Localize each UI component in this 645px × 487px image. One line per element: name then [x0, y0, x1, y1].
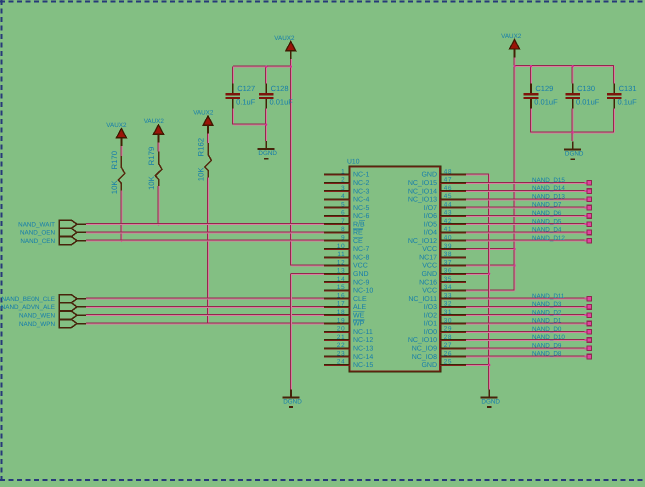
svg-text:32: 32 — [444, 301, 452, 308]
svg-text:NAND_D2: NAND_D2 — [532, 309, 562, 316]
off-sheet terminal NAND_D4 — [585, 231, 588, 233]
svg-text:5: 5 — [341, 201, 345, 208]
svg-text:WP: WP — [353, 321, 365, 328]
svg-text:NC-5: NC-5 — [353, 205, 369, 212]
svg-text:VAUX2: VAUX2 — [106, 122, 127, 129]
IC U10 body — [349, 166, 441, 372]
power VAUX2 above C127/C128 — [274, 35, 295, 59]
wire NAND_D10 from U10 pin 28 — [466, 339, 585, 341]
svg-text:39: 39 — [444, 243, 452, 250]
svg-text:VCC: VCC — [422, 288, 437, 295]
U10 pin 12 stub — [324, 264, 350, 266]
resistor R162 10K — [196, 138, 211, 181]
power VAUX2 above R179 — [144, 118, 165, 142]
U10 pin 17 stub — [324, 305, 350, 307]
svg-text:NC-12: NC-12 — [353, 337, 373, 344]
svg-text:NC16: NC16 — [419, 279, 437, 286]
svg-text:36: 36 — [444, 268, 452, 275]
wire NAND_D1 from U10 pin 30 — [466, 322, 585, 324]
junction pin39/VAUX2 rail — [513, 248, 515, 250]
port NAND_ADVN_ALE — [1, 303, 86, 311]
svg-text:VAUX2: VAUX2 — [501, 33, 522, 40]
svg-text:NAND_BE0N_CLE: NAND_BE0N_CLE — [1, 296, 55, 303]
U10 pin 29 stub — [440, 330, 466, 332]
svg-text:0.01uF: 0.01uF — [534, 97, 558, 106]
off-sheet terminal NAND_D6 — [585, 215, 588, 217]
junction top rail / VAUX2 wire — [290, 66, 292, 68]
U10 pin 24 stub — [324, 363, 350, 365]
svg-text:NAND_D15: NAND_D15 — [532, 177, 565, 184]
wire NAND_D7 from U10 pin 44 — [466, 206, 585, 208]
junction C129 / top rail — [530, 65, 532, 67]
svg-text:37: 37 — [444, 259, 452, 266]
svg-text:NAND_D10: NAND_D10 — [532, 334, 565, 341]
wire C130 bottom to ground — [571, 109, 573, 141]
U10 pin 42 stub — [440, 223, 466, 225]
U10 pin 11 stub — [324, 256, 350, 258]
svg-text:I/O7: I/O7 — [424, 204, 437, 212]
U10 pin 31 stub — [440, 314, 466, 316]
U10 pin 45 stub — [440, 198, 466, 200]
svg-text:30: 30 — [444, 317, 452, 324]
svg-text:NAND_D4: NAND_D4 — [532, 227, 562, 234]
svg-text:VCC: VCC — [422, 263, 437, 270]
wire C129 bottom stub — [530, 109, 532, 133]
svg-text:NAND_CEN: NAND_CEN — [20, 238, 55, 245]
wire R179 to NAND_WAIT — [157, 186, 159, 224]
power VAUX2 right group — [501, 33, 522, 57]
wire NAND_CEN to U10 pin 9 — [86, 239, 324, 241]
svg-text:NC-15: NC-15 — [353, 362, 373, 369]
svg-text:38: 38 — [444, 251, 452, 258]
junction C130 / bottom rail — [572, 131, 574, 133]
svg-text:29: 29 — [444, 326, 452, 333]
U10 pin 34 stub — [440, 289, 466, 291]
U10 pin 21 stub — [324, 339, 350, 341]
off-sheet terminal NAND_D3 — [585, 306, 588, 308]
svg-text:NAND_D3: NAND_D3 — [532, 301, 562, 308]
wire NAND_ADVN_ALE to U10 pin 17 — [86, 305, 324, 307]
wire NAND_WEN to U10 pin 18 — [86, 314, 324, 316]
wire NAND_BE0N_CLE to U10 pin 16 — [86, 297, 324, 299]
svg-text:CE: CE — [353, 238, 363, 245]
svg-text:47: 47 — [444, 177, 452, 184]
wire U10 pin 13 GND to bottom ground — [291, 272, 324, 274]
svg-text:22: 22 — [337, 342, 345, 349]
svg-text:NAND_D1: NAND_D1 — [532, 318, 562, 325]
wire VAUX2 to R162 — [207, 134, 209, 143]
wire C128 top stub — [265, 67, 267, 84]
capacitor C128 0.01uF — [259, 84, 293, 109]
wire NAND_D14 from U10 pin 46 — [466, 190, 585, 192]
junction pin25/ground rail — [488, 364, 490, 366]
U10 pin 27 stub — [440, 347, 466, 349]
svg-text:NAND_WPN: NAND_WPN — [19, 321, 55, 328]
wire NAND_D11 from U10 pin 33 — [466, 297, 585, 299]
svg-text:NC-14: NC-14 — [353, 354, 373, 361]
wire U10 pin 48 GND to ground rail — [466, 173, 489, 175]
wire NAND_D15 from U10 pin 47 — [466, 181, 585, 183]
svg-text:NC-1: NC-1 — [353, 172, 369, 179]
wire VAUX2 to R179 — [157, 143, 159, 152]
wire NAND_D12 from U10 pin 40 — [466, 239, 585, 241]
junction C130 / top rail — [572, 65, 574, 67]
svg-text:C129: C129 — [535, 84, 553, 93]
off-sheet terminal NAND_D5 — [585, 223, 588, 225]
svg-text:8: 8 — [341, 226, 345, 233]
svg-text:25: 25 — [444, 359, 452, 366]
svg-text:GND: GND — [353, 271, 369, 278]
svg-text:3: 3 — [341, 185, 345, 192]
U10 pin 47 stub — [440, 181, 466, 183]
svg-text:10K: 10K — [147, 175, 156, 190]
svg-text:GND: GND — [421, 271, 437, 278]
ground DGND bottom left — [283, 389, 303, 407]
wire C131 top stub — [613, 66, 615, 83]
U10 pin 1 stub — [324, 173, 350, 175]
wire NAND_D0 from U10 pin 29 — [466, 330, 585, 332]
junction pin36/ground rail — [488, 273, 490, 275]
U10 pin 41 stub — [440, 231, 466, 233]
wire VAUX2 to R170 — [120, 146, 122, 156]
svg-text:NAND_D11: NAND_D11 — [532, 293, 565, 300]
junction VAUX2 rail / top rail — [513, 65, 515, 67]
svg-text:35: 35 — [444, 276, 452, 283]
wire NAND_D9 from U10 pin 27 — [466, 347, 585, 349]
svg-text:20: 20 — [337, 326, 345, 333]
svg-text:NC-10: NC-10 — [353, 288, 373, 295]
resistor R170 10K — [110, 150, 125, 194]
wire NAND_D2 from U10 pin 31 — [466, 314, 585, 316]
wire NAND_D13 from U10 pin 45 — [466, 198, 585, 200]
svg-text:I/O4: I/O4 — [424, 229, 437, 237]
wire U10 pin 37 VCC to VAUX2 rail — [466, 264, 515, 266]
U10 pin 46 stub — [440, 190, 466, 192]
svg-text:34: 34 — [444, 284, 452, 291]
svg-text:I/O0: I/O0 — [424, 328, 437, 336]
off-sheet terminal NAND_D2 — [585, 314, 588, 316]
wire C127 bottom stub — [231, 109, 233, 125]
svg-text:NC_IO14: NC_IO14 — [408, 188, 437, 195]
off-sheet terminal NAND_D11 — [585, 298, 588, 300]
svg-text:0.01uF: 0.01uF — [576, 97, 600, 106]
svg-text:I/O6: I/O6 — [424, 212, 437, 220]
svg-text:C127: C127 — [237, 84, 255, 93]
svg-text:14: 14 — [337, 276, 345, 283]
svg-text:VAUX2: VAUX2 — [274, 35, 295, 42]
svg-text:DGND: DGND — [258, 150, 277, 157]
capacitor C127 0.1uF — [225, 84, 255, 109]
off-sheet terminal NAND_D1 — [585, 323, 588, 325]
svg-text:CLE: CLE — [353, 296, 367, 303]
svg-text:NAND_D13: NAND_D13 — [532, 193, 565, 200]
U10 pin 5 stub — [324, 206, 350, 208]
port NAND_WPN — [19, 320, 86, 328]
junction R170/NAND_CEN — [120, 240, 122, 242]
wire C130 top stub — [571, 66, 573, 83]
U10 pin 25 stub — [440, 363, 466, 365]
svg-text:40: 40 — [444, 235, 452, 242]
svg-text:NAND_D5: NAND_D5 — [532, 218, 562, 225]
ground DGND bottom right — [481, 389, 501, 407]
port NAND_BE0N_CLE — [1, 295, 86, 303]
svg-text:C130: C130 — [577, 84, 595, 93]
power VAUX2 above R162 — [193, 109, 214, 133]
svg-text:17: 17 — [337, 301, 345, 308]
off-sheet terminal NAND_D9 — [585, 347, 588, 349]
svg-text:NAND_D14: NAND_D14 — [532, 185, 565, 192]
svg-text:NC-3: NC-3 — [353, 188, 369, 195]
U10 pin 30 stub — [440, 322, 466, 324]
svg-text:C131: C131 — [619, 84, 637, 93]
U10 pin 48 stub — [440, 173, 466, 175]
wire R170 to NAND_CEN — [120, 191, 122, 241]
svg-text:NC-7: NC-7 — [353, 246, 369, 253]
svg-text:DGND: DGND — [565, 151, 584, 158]
svg-text:C128: C128 — [271, 84, 289, 93]
svg-text:41: 41 — [444, 226, 452, 233]
svg-text:VCC: VCC — [353, 263, 368, 270]
svg-text:2: 2 — [341, 177, 345, 184]
svg-text:43: 43 — [444, 210, 452, 217]
U10 pin 36 stub — [440, 272, 466, 274]
svg-text:NC-13: NC-13 — [353, 346, 373, 353]
svg-text:NC-2: NC-2 — [353, 180, 369, 187]
wire NAND_D8 from U10 pin 26 — [466, 355, 585, 357]
svg-text:GND: GND — [421, 172, 437, 179]
svg-text:46: 46 — [444, 185, 452, 192]
svg-text:33: 33 — [444, 293, 452, 300]
U10 pin 28 stub — [440, 339, 466, 341]
off-sheet terminal NAND_D13 — [585, 198, 588, 200]
off-sheet terminal NAND_D12 — [585, 240, 588, 242]
svg-text:DGND: DGND — [481, 399, 500, 406]
U10 pin 7 stub — [324, 223, 350, 225]
U10 pin 9 stub — [324, 239, 350, 241]
svg-text:I/O1: I/O1 — [424, 320, 437, 328]
junction C128 / bottom rail — [265, 124, 267, 126]
svg-text:26: 26 — [444, 350, 452, 357]
U10 pin 22 stub — [324, 347, 350, 349]
svg-text:NAND_D12: NAND_D12 — [532, 235, 565, 242]
svg-text:NC-4: NC-4 — [353, 197, 369, 204]
svg-text:9: 9 — [341, 235, 345, 242]
svg-text:7: 7 — [341, 218, 345, 225]
svg-text:12: 12 — [337, 259, 345, 266]
wire NAND_D3 from U10 pin 32 — [466, 305, 585, 307]
U10 pin 32 stub — [440, 305, 466, 307]
svg-text:10K: 10K — [110, 180, 119, 195]
wire NAND_D5 from U10 pin 42 — [466, 223, 585, 225]
U10 pin 39 stub — [440, 248, 466, 250]
svg-text:0.01uF: 0.01uF — [270, 97, 294, 106]
svg-text:I/O5: I/O5 — [424, 220, 437, 228]
svg-text:GND: GND — [421, 362, 437, 369]
U10 pin 14 stub — [324, 281, 350, 283]
off-sheet terminal NAND_D0 — [585, 331, 588, 333]
U10 pin 26 stub — [440, 355, 466, 357]
U10 pin 3 stub — [324, 190, 350, 192]
svg-text:U10: U10 — [347, 159, 360, 166]
svg-text:13: 13 — [337, 268, 345, 275]
svg-text:NC_IO13: NC_IO13 — [408, 197, 437, 204]
wire VAUX2 rail down to U10 pin 34 VCC — [513, 57, 515, 290]
svg-text:10: 10 — [337, 243, 345, 250]
ground DGND below C128 — [258, 141, 278, 159]
U10 pin 6 stub — [324, 214, 350, 216]
ground DGND below C130 — [564, 141, 584, 159]
svg-text:6: 6 — [341, 210, 345, 217]
svg-text:R162: R162 — [196, 138, 205, 157]
svg-text:NC-8: NC-8 — [353, 255, 369, 262]
svg-text:NAND_D0: NAND_D0 — [532, 326, 562, 333]
U10 pin 33 stub — [440, 297, 466, 299]
svg-text:NAND_D7: NAND_D7 — [532, 202, 562, 209]
U10 pin 18 stub — [324, 314, 350, 316]
svg-text:R170: R170 — [110, 150, 119, 169]
svg-text:0.1uF: 0.1uF — [236, 97, 256, 106]
wire C128 bottom to ground — [265, 109, 267, 141]
resistor R179 10K — [147, 147, 162, 190]
svg-text:27: 27 — [444, 342, 452, 349]
svg-text:NC17: NC17 — [419, 255, 437, 262]
power VAUX2 above R170 — [106, 122, 127, 146]
svg-text:NAND_WAIT: NAND_WAIT — [18, 222, 55, 229]
U10 pin 20 stub — [324, 330, 350, 332]
junction R179/NAND_WAIT — [157, 223, 159, 225]
svg-text:WE: WE — [353, 312, 365, 319]
svg-text:23: 23 — [337, 350, 345, 357]
U10 pin 37 stub — [440, 264, 466, 266]
port NAND_CEN — [20, 237, 86, 245]
wire NAND_D4 from U10 pin 41 — [466, 231, 585, 233]
svg-text:NC_IO9: NC_IO9 — [412, 346, 437, 353]
capacitor C129 0.01uF — [524, 84, 558, 109]
wire cap bottom rail right group — [531, 131, 614, 133]
svg-text:NAND_D8: NAND_D8 — [532, 351, 562, 358]
port NAND_WAIT — [18, 220, 86, 228]
wire C127 top stub — [231, 67, 233, 84]
wire NAND_OEN to U10 pin 8 — [86, 231, 324, 233]
wire U10 pin 25 GND to ground rail — [466, 363, 489, 365]
capacitor C131 0.1uF — [607, 84, 637, 109]
svg-text:42: 42 — [444, 218, 452, 225]
wire C129 top stub — [530, 66, 532, 83]
svg-text:48: 48 — [444, 168, 452, 175]
junction R162/NAND_WPN — [207, 322, 209, 324]
port NAND_OEN — [20, 228, 86, 236]
U10 pin 10 stub — [324, 248, 350, 250]
svg-text:NC_IO12: NC_IO12 — [408, 238, 437, 245]
capacitor C130 0.01uF — [565, 84, 599, 109]
off-sheet terminal NAND_D10 — [585, 339, 588, 341]
svg-text:16: 16 — [337, 293, 345, 300]
U10 pin 4 stub — [324, 198, 350, 200]
svg-text:VAUX2: VAUX2 — [193, 109, 214, 116]
wire VAUX2 down to U10 pin 12 VCC — [289, 59, 291, 265]
svg-text:45: 45 — [444, 193, 452, 200]
svg-text:28: 28 — [444, 334, 452, 341]
svg-text:31: 31 — [444, 309, 452, 316]
svg-text:NC-9: NC-9 — [353, 279, 369, 286]
svg-text:I/O3: I/O3 — [424, 303, 437, 311]
U10 pin 38 stub — [440, 256, 466, 258]
svg-text:VAUX2: VAUX2 — [144, 118, 165, 125]
wire U10 pin 36 GND to ground rail — [466, 272, 489, 274]
svg-text:ALE: ALE — [353, 304, 367, 311]
off-sheet terminal NAND_D7 — [585, 207, 588, 209]
off-sheet terminal NAND_D15 — [585, 182, 588, 184]
wire NAND_WPN to U10 pin 19 — [86, 322, 324, 324]
U10 pin 8 stub — [324, 231, 350, 233]
port NAND_WEN — [19, 311, 86, 319]
U10 pin 44 stub — [440, 206, 466, 208]
wire NAND_D6 from U10 pin 43 — [466, 214, 585, 216]
U10 pin 13 stub — [324, 272, 350, 274]
svg-text:1: 1 — [341, 168, 345, 175]
svg-text:NAND_D9: NAND_D9 — [532, 342, 562, 349]
off-sheet terminal NAND_D8 — [585, 356, 588, 358]
U10 pin 43 stub — [440, 214, 466, 216]
U10 pin 19 stub — [324, 322, 350, 324]
svg-text:18: 18 — [337, 309, 345, 316]
wire NAND_WAIT to U10 pin 7 — [86, 223, 324, 225]
U10 pin 15 stub — [324, 289, 350, 291]
svg-text:4: 4 — [341, 193, 345, 200]
svg-text:NC_IO11: NC_IO11 — [408, 296, 437, 303]
U10 pin 2 stub — [324, 181, 350, 183]
svg-text:19: 19 — [337, 317, 345, 324]
svg-text:0.1uF: 0.1uF — [618, 97, 638, 106]
wire cap top rail left group — [233, 65, 291, 67]
wire C131 bottom stub — [613, 109, 615, 133]
svg-text:R/B: R/B — [353, 220, 365, 228]
junction pin37/VAUX2 rail — [513, 264, 515, 266]
svg-text:NC-6: NC-6 — [353, 213, 369, 220]
svg-text:RE: RE — [353, 230, 363, 237]
svg-text:VCC: VCC — [422, 246, 437, 253]
svg-text:21: 21 — [337, 334, 345, 341]
svg-text:24: 24 — [337, 359, 345, 366]
svg-text:NAND_OEN: NAND_OEN — [20, 230, 55, 237]
svg-text:10K: 10K — [196, 167, 205, 182]
svg-text:NAND_ADVN_ALE: NAND_ADVN_ALE — [1, 304, 55, 311]
junction C128 top / rail — [265, 66, 267, 68]
svg-text:I/O2: I/O2 — [424, 311, 437, 319]
svg-text:NC_IO8: NC_IO8 — [412, 354, 437, 361]
wire cap top rail right group — [515, 65, 615, 67]
svg-text:11: 11 — [337, 251, 345, 258]
svg-text:NAND_D6: NAND_D6 — [532, 210, 562, 217]
wire U10 pin 39 VCC to VAUX2 rail — [466, 248, 515, 250]
wire R162 to NAND_WPN — [207, 177, 209, 323]
U10 pin 16 stub — [324, 297, 350, 299]
off-sheet terminal NAND_D14 — [585, 190, 588, 192]
svg-text:NC-11: NC-11 — [353, 329, 373, 336]
svg-text:NC_IO15: NC_IO15 — [408, 180, 437, 187]
svg-text:NAND_WEN: NAND_WEN — [19, 313, 55, 320]
svg-text:DGND: DGND — [283, 399, 302, 406]
svg-text:15: 15 — [337, 284, 345, 291]
svg-text:44: 44 — [444, 201, 452, 208]
U10 pin 23 stub — [324, 355, 350, 357]
wire cap bottom rail left group — [233, 123, 266, 125]
U10 pin 40 stub — [440, 239, 466, 241]
U10 pin 35 stub — [440, 281, 466, 283]
svg-text:NC_IO10: NC_IO10 — [408, 337, 437, 344]
svg-text:R179: R179 — [147, 147, 156, 166]
